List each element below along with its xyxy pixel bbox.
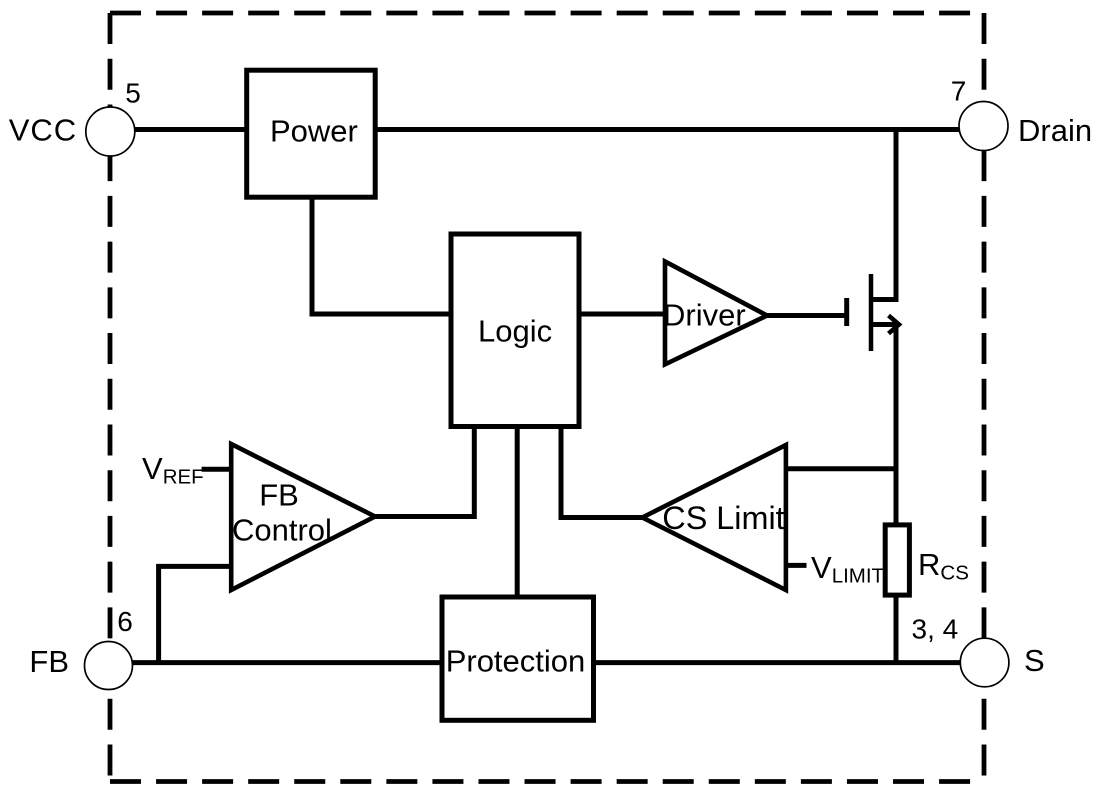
pin circle VCC (5) (86, 107, 135, 156)
svg-text:S: S (1024, 643, 1045, 678)
pin circle S (3,4) (960, 638, 1009, 687)
transistor MOSFET source arrow (889, 316, 900, 334)
IC boundary dashed border left (108, 13, 113, 782)
svg-text:Protection: Protection (446, 644, 586, 679)
wire Driver output to MOSFET gate (767, 313, 845, 318)
wire resistor bottom to S rail (894, 595, 899, 663)
wire VCC rail to Drain (110, 127, 983, 132)
block Power (247, 70, 376, 197)
IC boundary dashed border top (110, 11, 984, 16)
svg-text:3, 4: 3, 4 (912, 614, 959, 645)
transistor MOSFET channel bar (869, 274, 874, 351)
svg-text:7: 7 (951, 75, 967, 106)
svg-text:FB: FB (259, 477, 299, 512)
svg-text:Control: Control (232, 512, 332, 547)
IC boundary dashed border bottom (110, 779, 984, 784)
svg-text:Logic: Logic (478, 314, 552, 349)
svg-text:CS Limit: CS Limit (662, 500, 784, 536)
wire V_LIMIT stub (786, 563, 807, 568)
wire Logic right to Driver (579, 312, 665, 317)
svg-text:Power: Power (270, 114, 358, 149)
wire FB rail to S pin (109, 660, 985, 665)
wire CS Limit top input (786, 466, 896, 471)
wire V_REF stub (202, 467, 232, 472)
svg-text:Driver: Driver (663, 297, 746, 332)
wire MOSFET drain to top rail (871, 130, 896, 300)
block Protection (442, 597, 594, 720)
wire FB Control output to Logic (375, 427, 474, 517)
svg-text:FB: FB (29, 644, 69, 679)
op-amp FB Control (231, 444, 375, 590)
op-amp/buffer Driver (665, 262, 767, 365)
svg-text:VCC: VCC (9, 113, 77, 148)
block Logic (451, 234, 579, 427)
wire Power bottom stub to Logic left (312, 197, 451, 314)
pin circle FB (6) (85, 642, 133, 690)
wire MOSFET source down to resistor (871, 325, 896, 528)
IC boundary dashed border right (982, 13, 987, 782)
svg-text:Drain: Drain (1018, 113, 1092, 148)
svg-text:5: 5 (125, 77, 141, 108)
op-amp CS Limit (642, 445, 786, 590)
resistor RCS (885, 525, 909, 595)
transistor MOSFET gate bar (844, 298, 849, 326)
pin circle Drain (7) (959, 102, 1008, 151)
wire FB Control lower input from FB rail (159, 566, 232, 663)
wire CS Limit output to Logic (561, 427, 642, 518)
wire Logic to Protection (515, 427, 520, 598)
svg-text:6: 6 (117, 606, 133, 637)
